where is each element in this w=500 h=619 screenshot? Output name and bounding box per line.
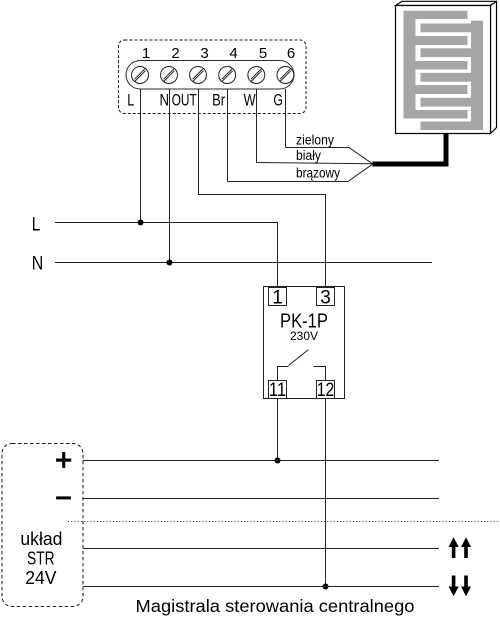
svg-text:zielony: zielony	[296, 132, 334, 148]
svg-text:1: 1	[272, 288, 283, 309]
svg-text:3: 3	[320, 288, 331, 309]
svg-text:układ: układ	[20, 529, 62, 549]
svg-text:brązowy: brązowy	[296, 165, 340, 181]
svg-text:OUT: OUT	[172, 92, 197, 110]
svg-text:4: 4	[229, 45, 237, 62]
svg-text:biały: biały	[296, 147, 321, 163]
svg-text:11: 11	[269, 380, 287, 401]
svg-text:Br: Br	[212, 92, 225, 110]
svg-text:W: W	[244, 92, 256, 110]
svg-text:24V: 24V	[25, 568, 56, 588]
svg-text:230V: 230V	[290, 331, 318, 343]
svg-text:L: L	[32, 215, 41, 236]
svg-text:N: N	[159, 92, 169, 110]
svg-text:6: 6	[287, 45, 295, 62]
svg-text:N: N	[32, 254, 44, 275]
svg-text:2: 2	[171, 45, 179, 62]
svg-text:PK-1P: PK-1P	[280, 311, 328, 333]
svg-text:12: 12	[317, 380, 335, 401]
svg-text:1: 1	[142, 45, 150, 62]
svg-text:Magistrala sterowania centraln: Magistrala sterowania centralnego	[136, 596, 415, 616]
svg-text:5: 5	[259, 45, 267, 62]
svg-text:STR: STR	[27, 548, 55, 568]
svg-text:L: L	[127, 92, 134, 110]
svg-text:3: 3	[200, 45, 208, 62]
svg-text:G: G	[273, 92, 283, 110]
